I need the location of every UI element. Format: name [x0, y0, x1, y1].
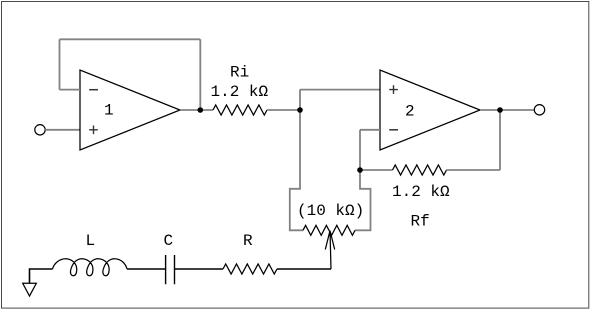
node junction B at Rf left — [357, 167, 363, 173]
wire U1 feedback left vertical — [59, 39, 61, 89]
resistor R — [223, 264, 277, 274]
op-amp U1 noninverting input marker — [89, 126, 98, 135]
wire node A down to potentiometer left — [290, 110, 303, 230]
node junction A after Ri — [297, 107, 303, 113]
wire U1 feedback right vertical — [199, 39, 201, 110]
svg-text:Ri: Ri — [230, 64, 249, 82]
potentiometer RP body (10 kOhm) — [303, 225, 355, 235]
resistor Rf — [393, 165, 447, 175]
wire U2 output — [480, 109, 534, 111]
svg-text:C: C — [164, 232, 174, 250]
op-amp U2 noninverting input marker — [389, 85, 398, 94]
wire wiper to resistor R — [277, 268, 331, 270]
input terminal circle — [35, 125, 45, 135]
svg-text:1: 1 — [104, 102, 114, 120]
wire capacitor to R — [175, 268, 224, 270]
wire U1 output to Ri — [180, 109, 213, 111]
op-amp U2 — [380, 70, 480, 150]
op-amp U2 inverting input marker — [389, 129, 398, 131]
capacitor C plates — [166, 255, 175, 284]
resistor Ri — [213, 105, 267, 115]
node junction U2 output — [497, 107, 503, 113]
wire Rf to output vertical — [447, 169, 501, 171]
svg-text:1.2 kΩ: 1.2 kΩ — [392, 183, 450, 201]
wire U2 inverting input down to node B — [359, 130, 361, 170]
wire to U2 noninverting input — [300, 89, 380, 91]
wire node B down to potentiometer right — [355, 170, 371, 230]
svg-text:Rf: Rf — [411, 213, 430, 231]
svg-text:R: R — [243, 232, 253, 250]
wire U2 inverting input stub — [360, 129, 380, 131]
wire node B to Rf — [360, 169, 393, 171]
node junction U1 output — [198, 107, 204, 113]
svg-text:(10 kΩ): (10 kΩ) — [297, 202, 364, 220]
wire U1 inverting input stub — [60, 89, 81, 91]
inductor L coil — [53, 259, 128, 276]
output terminal circle — [534, 105, 544, 115]
op-amp U1 — [80, 70, 180, 150]
svg-text:1.2 kΩ: 1.2 kΩ — [211, 83, 269, 101]
svg-text:L: L — [86, 232, 96, 250]
wire U1 feedback top horizontal — [60, 38, 201, 40]
ground symbol — [23, 283, 37, 296]
svg-text:2: 2 — [405, 103, 415, 121]
op-amp U1 inverting input marker — [89, 89, 98, 91]
wire output node down — [499, 110, 501, 170]
wire Ri to node A — [267, 109, 300, 111]
wire ground to inductor — [30, 269, 53, 283]
wire inductor to capacitor — [127, 268, 166, 270]
potentiometer wiper arrow — [325, 231, 334, 269]
wire node A up — [299, 90, 301, 110]
wire input to op-amp 1 noninverting input — [45, 129, 80, 131]
